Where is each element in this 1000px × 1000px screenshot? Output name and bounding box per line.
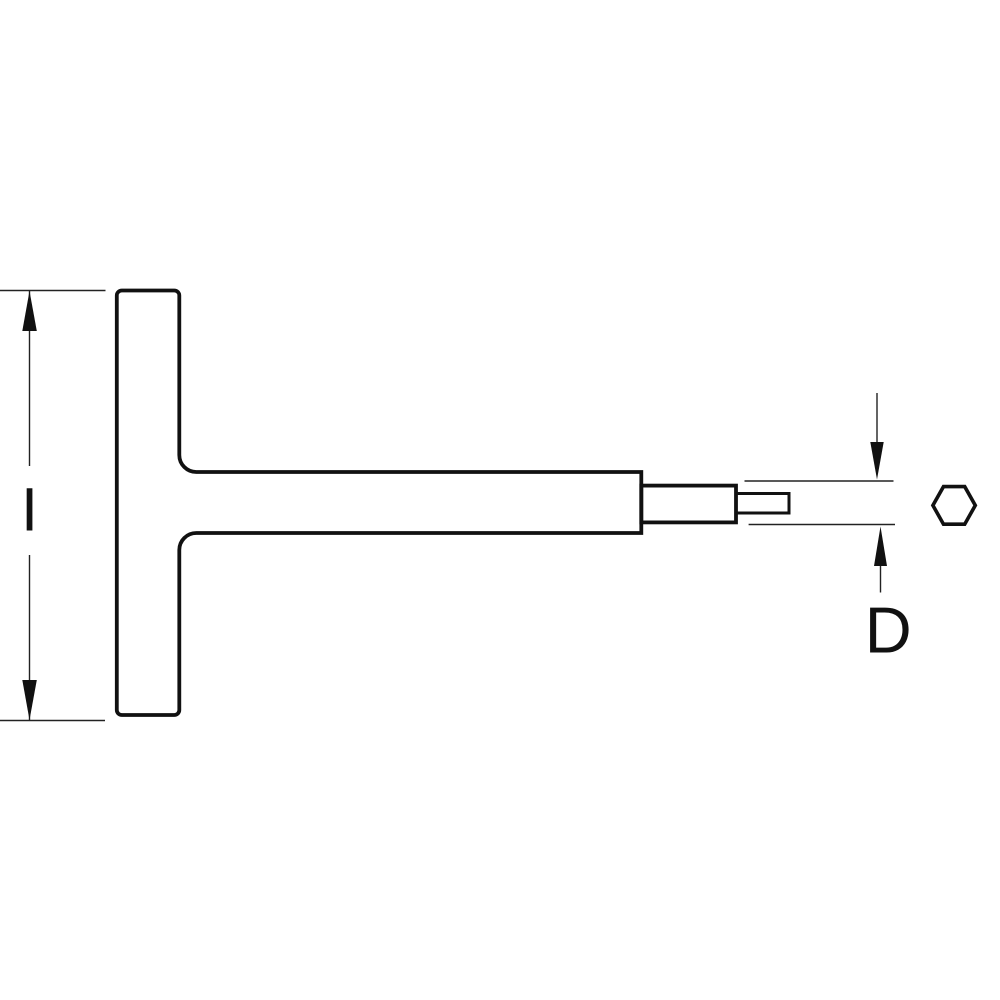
svg-text:I: I	[21, 476, 38, 545]
svg-text:D: D	[865, 594, 912, 667]
